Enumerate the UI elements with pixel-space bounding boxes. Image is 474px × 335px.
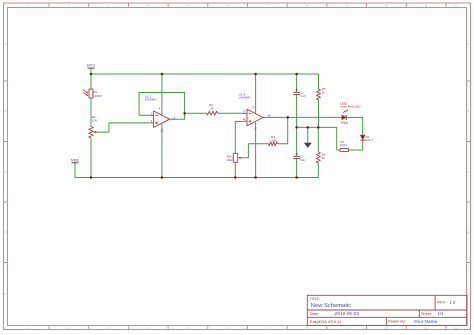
svg-text:10k: 10k — [271, 138, 276, 142]
svg-text:13: 13 — [242, 110, 246, 114]
svg-text:5mm Red LED: 5mm Red LED — [340, 104, 361, 108]
svg-text:E: E — [468, 292, 470, 296]
svg-text:1.0: 1.0 — [450, 300, 456, 305]
svg-text:A: A — [468, 42, 470, 46]
svg-text:B: B — [5, 109, 7, 113]
svg-text:12: 12 — [242, 117, 246, 121]
svg-text:VEE: VEE — [71, 157, 79, 162]
svg-text:B: B — [468, 109, 470, 113]
svg-text:C: C — [468, 170, 470, 174]
svg-text:LM348N: LM348N — [239, 96, 251, 100]
svg-text:14: 14 — [267, 114, 271, 118]
svg-text:A: A — [5, 42, 7, 46]
svg-text:1uF: 1uF — [300, 158, 305, 162]
svg-text:Date:: Date: — [310, 312, 319, 316]
svg-text:6A2-T: 6A2-T — [366, 138, 374, 142]
svg-text:11: 11 — [160, 129, 164, 132]
svg-text:1k: 1k — [322, 156, 326, 160]
svg-text:1k: 1k — [322, 90, 326, 94]
svg-text:Red: Red — [341, 121, 348, 125]
svg-text:220Ω: 220Ω — [340, 143, 348, 147]
svg-text:LM348N: LM348N — [145, 98, 157, 102]
svg-text:1uF: 1uF — [300, 94, 305, 98]
svg-text:VCC: VCC — [87, 63, 96, 68]
svg-text:2018-06-03: 2018-06-03 — [335, 311, 360, 317]
svg-text:New Schematic: New Schematic — [311, 303, 351, 309]
svg-text:1/1: 1/1 — [438, 311, 445, 316]
svg-text:D: D — [468, 230, 470, 234]
svg-text:C: C — [5, 170, 7, 174]
svg-text:TITLE:: TITLE: — [310, 297, 320, 301]
svg-text:REV:: REV: — [437, 301, 446, 305]
svg-text:10kΩ: 10kΩ — [226, 158, 234, 162]
svg-text:11: 11 — [253, 127, 257, 130]
svg-text:LDR07: LDR07 — [93, 94, 103, 98]
svg-text:Drawn By:: Drawn By: — [388, 319, 406, 324]
svg-text:E: E — [5, 292, 7, 296]
svg-text:10K: 10K — [92, 118, 97, 122]
svg-text:2k: 2k — [210, 107, 214, 111]
svg-text:D: D — [5, 230, 7, 234]
svg-text:Sheet:: Sheet: — [421, 312, 432, 316]
svg-text:Your Name: Your Name — [414, 319, 438, 325]
svg-text:EasyEDA V5.5.11: EasyEDA V5.5.11 — [310, 319, 342, 324]
